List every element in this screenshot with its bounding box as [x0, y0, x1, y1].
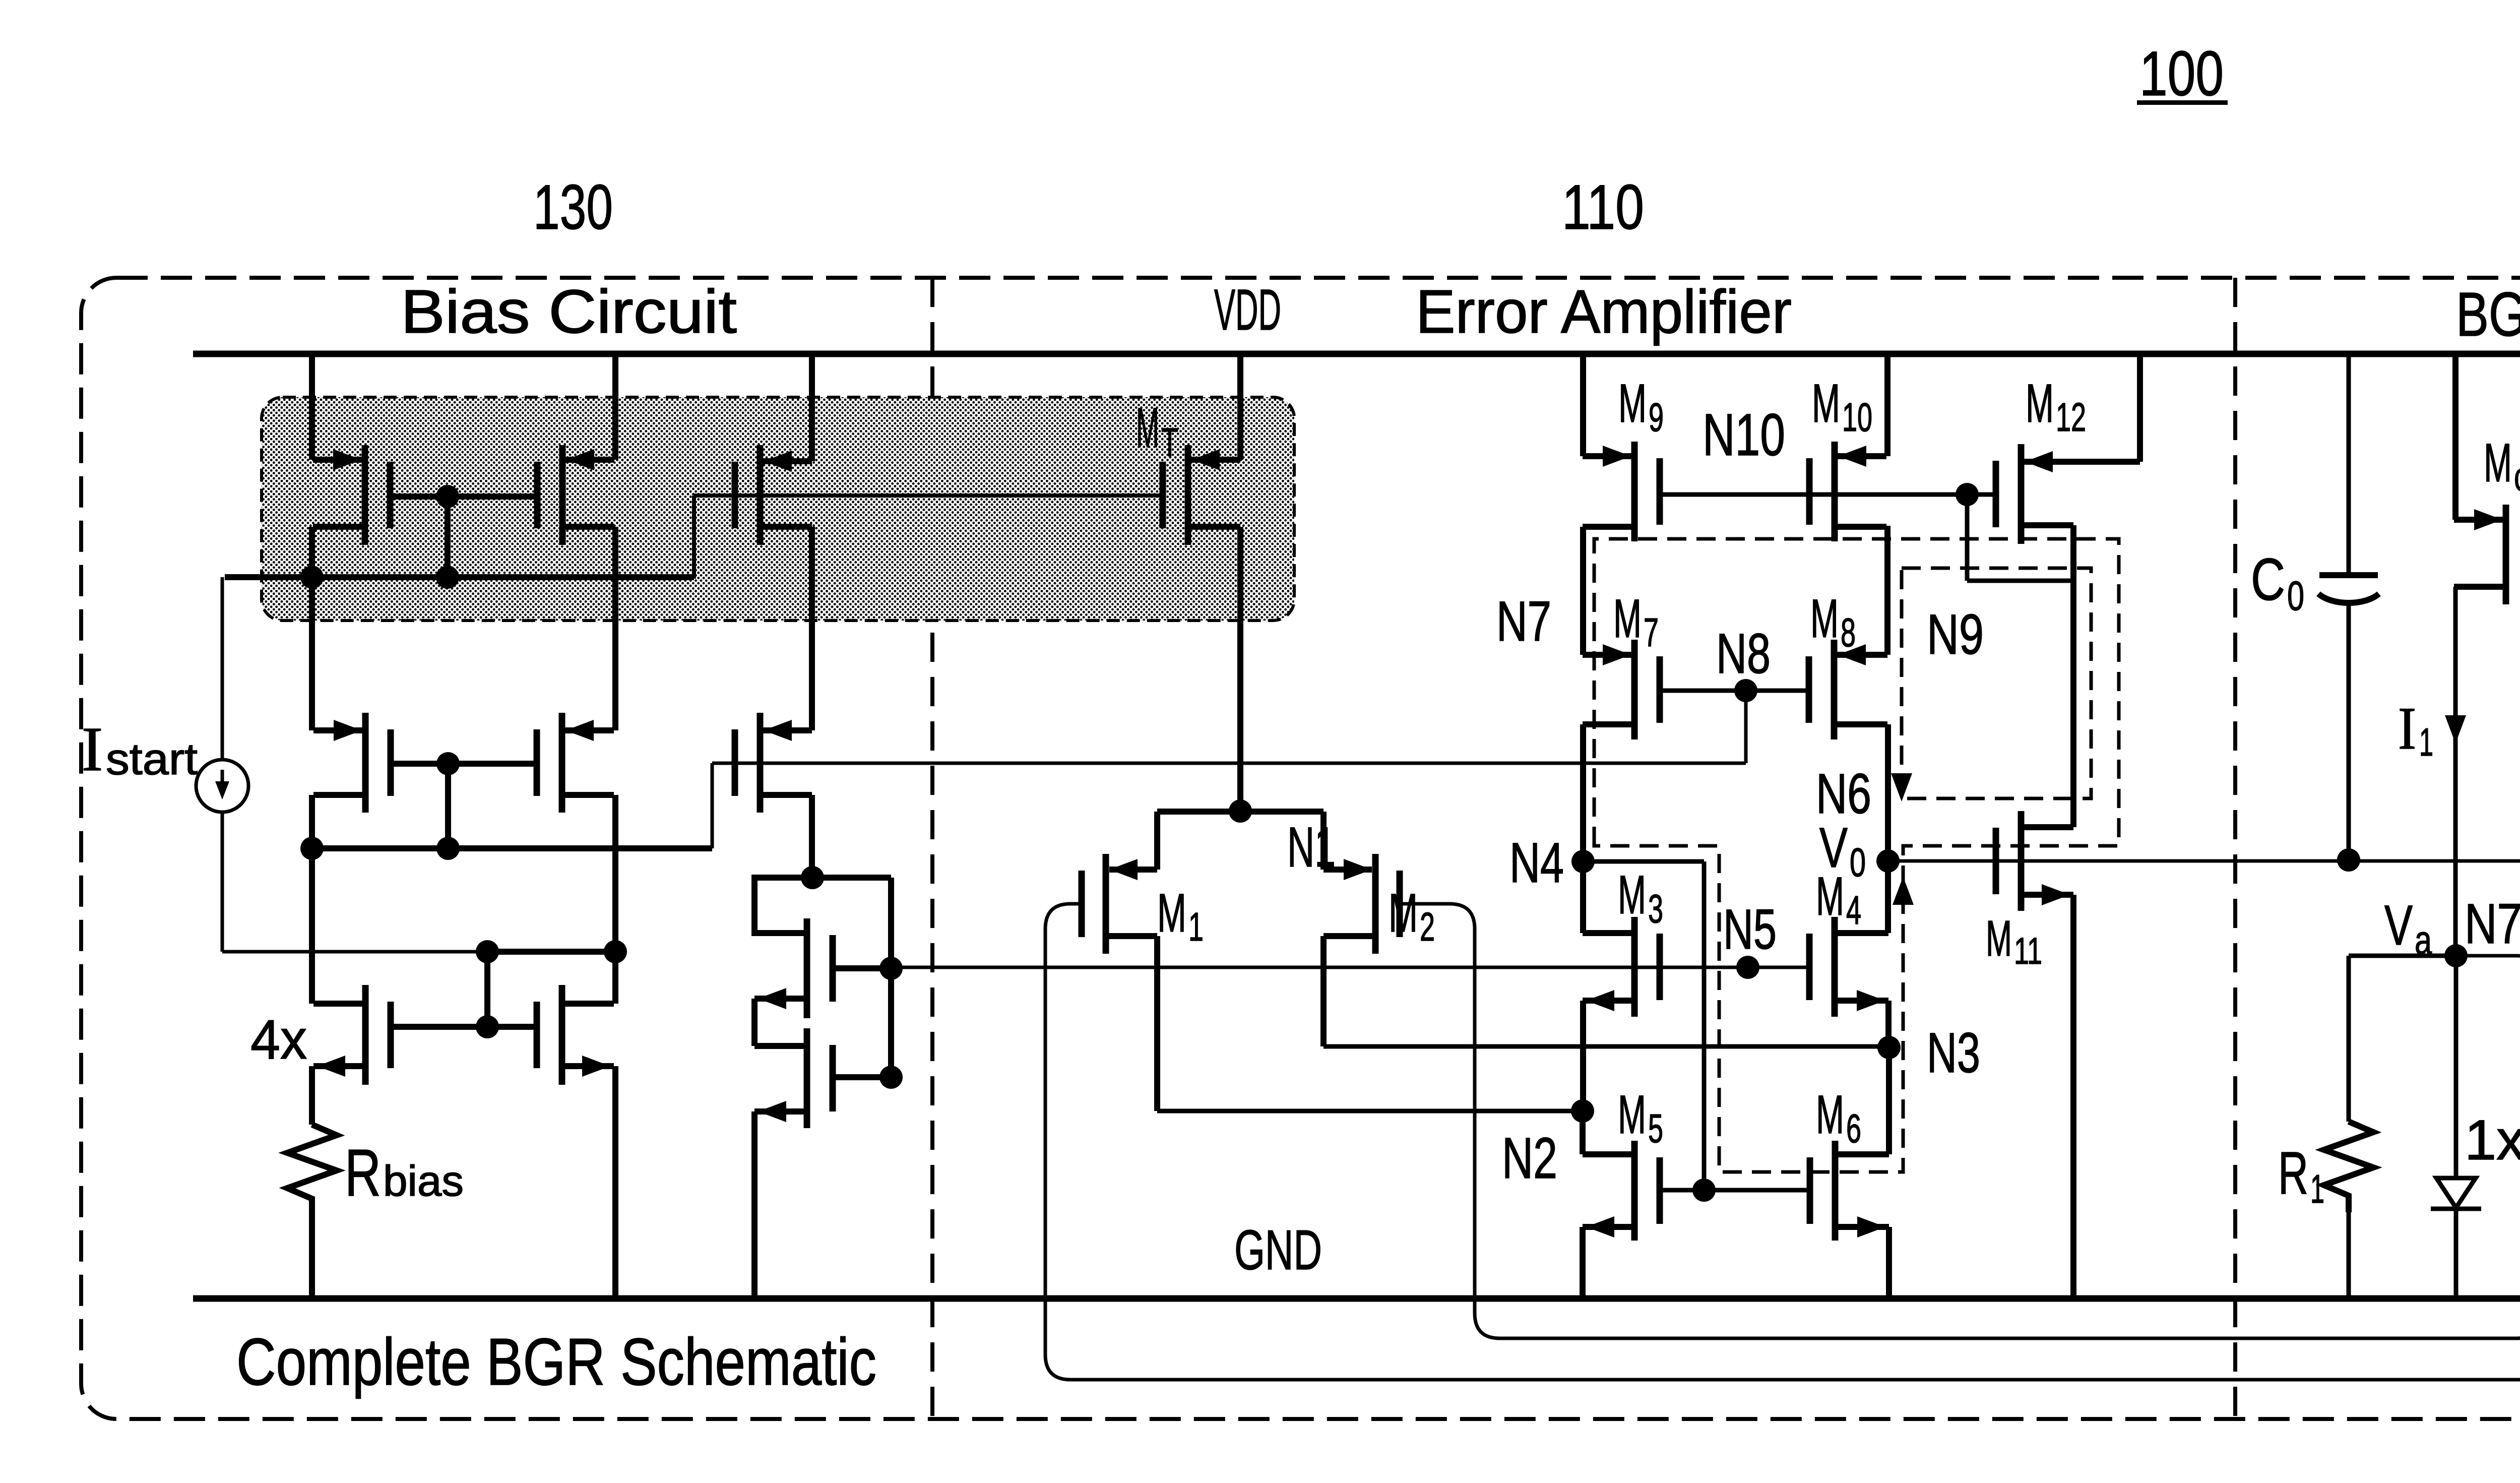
svg-text:V: V: [1819, 816, 1848, 879]
wire row3 right source to GND: [612, 1066, 618, 1299]
M8 gate lead: [1746, 689, 1810, 693]
transistor T1 (startup PMOS 1) source lead: [313, 524, 365, 530]
wire MT source down to N1: [1237, 527, 1243, 811]
transistor T3 (startup PMOS 3) channel: [757, 445, 764, 545]
wire N3 to M6 drain: [1886, 1047, 1892, 1154]
node dot Va: [2444, 944, 2468, 967]
svg-text:T: T: [1161, 420, 1178, 465]
transistor bias mirror PMOS row2 right arrow: [565, 720, 594, 741]
svg-text:c1: c1: [2514, 454, 2520, 499]
stack2 source lead: [754, 1108, 807, 1115]
transistor Mc1 arrow: [2474, 509, 2502, 530]
node dot N1: [1229, 799, 1252, 823]
svg-text:C: C: [2251, 546, 2285, 613]
transistor bias NMOS 4x left channel: [362, 985, 369, 1085]
stack2 source wire to GND: [751, 1111, 758, 1299]
transistor M6 gate bar: [1807, 1157, 1813, 1224]
transistor T3 (startup PMOS 3) arrow: [764, 451, 792, 472]
svg-text:M: M: [1618, 373, 1647, 434]
node dot N8 error-amp: [1734, 679, 1757, 702]
row2 gate lead left: [390, 761, 448, 767]
transistor T1 (startup PMOS 1) arrow: [333, 449, 361, 470]
transistor bias mirror PMOS row2 right channel: [559, 713, 565, 813]
transistor M9 channel: [1631, 442, 1638, 541]
dashed box N9: [1902, 568, 2091, 798]
wire third leg to diode stack: [809, 795, 815, 878]
transistor bias NMOS row3 right source arrow: [582, 1056, 610, 1077]
wire VDD to M10 drain: [1884, 354, 1891, 456]
stack2 drain lead: [754, 1043, 807, 1049]
transistor M9 gate bar: [1657, 458, 1663, 525]
wire Mc1 source to Va: [2453, 587, 2458, 956]
node dot Istart row left: [476, 940, 499, 963]
node dot V0: [1876, 849, 1900, 873]
stack1 source arrow: [758, 988, 786, 1009]
outer dashed boundary box: [81, 278, 2520, 1419]
svg-text:I: I: [82, 715, 103, 784]
svg-text:5: 5: [1648, 1106, 1663, 1151]
node dot N3: [1877, 1036, 1901, 1059]
transistor M7 arrow: [1603, 644, 1631, 665]
M12 drain lead: [2021, 459, 2140, 465]
transistor M9 arrow: [1603, 446, 1631, 467]
capacitor C0 bottom plate: [2318, 594, 2379, 603]
transistor M8 source lead: [1834, 721, 1887, 727]
wire M5 source to GND: [1580, 1227, 1586, 1299]
wire VDD to M12 drain: [2137, 354, 2143, 462]
R1 bottom wire: [2347, 1212, 2351, 1299]
transistor bias NMOS row3 right drain lead: [562, 1001, 614, 1007]
transistor bias mirror PMOS row2 right gate bar: [534, 729, 540, 796]
svg-text:N8: N8: [1716, 622, 1771, 685]
wire VDD to C0: [2347, 354, 2351, 575]
node dot M5/M6 gates: [1692, 1179, 1716, 1202]
svg-text:M: M: [1810, 588, 1839, 649]
svg-text:6: 6: [1846, 1106, 1861, 1151]
diode NMOS stack 1 gate bar: [830, 935, 836, 1002]
node dot N10/M12: [1956, 483, 1979, 506]
R1 top wire: [2347, 956, 2351, 1122]
transistor M9 drain lead: [1583, 453, 1634, 459]
svg-text:N9: N9: [1927, 603, 1984, 666]
bias mirror gate row: [225, 574, 694, 580]
wire bias row2 right to row3: [612, 795, 618, 1004]
transistor T2 (startup PMOS 2) channel: [559, 445, 566, 545]
svg-text:9: 9: [1649, 395, 1664, 440]
transistor M4 source lead: [1835, 998, 1888, 1004]
svg-text:1: 1: [2310, 1166, 2324, 1211]
N4 to M5/M6 gate wire horizontal: [1583, 859, 1704, 864]
transistor Mc1 source lead: [2454, 584, 2506, 590]
svg-text:Error Amplifier: Error Amplifier: [1416, 277, 1792, 346]
diode D1 to GND: [2454, 1209, 2459, 1299]
wire C0 to V0 line: [2347, 601, 2351, 860]
transistor M8 channel: [1831, 640, 1838, 739]
transistor M11 channel: [2018, 811, 2025, 911]
diode D1 1x: [2436, 1178, 2476, 1208]
transistor M5 source arrow: [1586, 1216, 1614, 1238]
transistor T3 (startup PMOS 3) drain lead: [760, 458, 812, 464]
transistor M3 source arrow: [1586, 990, 1614, 1011]
transistor bias NMOS row3 right source lead: [562, 1063, 614, 1069]
Istart row thick segment: [487, 949, 615, 955]
wire M3 source to N2: [1580, 1001, 1586, 1111]
transistor MT (tail current PMOS) channel: [1185, 445, 1191, 545]
svg-text:N10: N10: [1703, 402, 1785, 468]
svg-text:BGR Core: BGR Core: [2456, 280, 2520, 349]
transistor bias mirror PMOS row2 left channel: [362, 713, 369, 813]
transistor bias mirror PMOS row2 third (diode) channel: [757, 713, 764, 813]
transistor M1 channel: [1103, 854, 1109, 954]
svg-text:bias: bias: [383, 1157, 464, 1205]
svg-text:N7: N7: [2465, 892, 2520, 955]
wire T2 source down: [612, 527, 618, 730]
node dot N5: [1736, 956, 1759, 979]
svg-text:M: M: [1986, 910, 2012, 967]
dashed separator error-amplifier/BGR-core: [2233, 278, 2237, 1419]
transistor bias mirror PMOS row2 right source lead: [562, 792, 614, 798]
transistor T1 (startup PMOS 1) drain lead: [313, 457, 365, 463]
svg-text:VDD: VDD: [1214, 278, 1281, 342]
svg-text:12: 12: [2056, 395, 2086, 440]
transistor M2 gate bar: [1397, 871, 1403, 937]
Istart arrow head: [215, 781, 229, 799]
Istart current source circle: [196, 760, 248, 812]
transistor M11 source lead: [2021, 892, 2073, 898]
node dot C0/V0: [2337, 848, 2360, 872]
GND rail: [193, 1295, 2520, 1302]
row2 gate lead right: [448, 761, 538, 767]
transistor T2 (startup PMOS 2) source lead: [562, 524, 614, 530]
wire T3 source down: [809, 527, 815, 730]
M1 drain wire down: [1154, 936, 1160, 1111]
transistor T1 (startup PMOS 1) gate bar: [387, 462, 394, 528]
shaded startup region: [262, 397, 1294, 621]
svg-text:M: M: [1613, 588, 1642, 649]
transistor M11 drain lead: [2021, 824, 2073, 830]
node dot mid gate row: [436, 566, 459, 589]
svg-text:M: M: [2484, 432, 2512, 493]
svg-text:N4: N4: [1509, 831, 1564, 894]
svg-text:N3: N3: [1927, 1021, 1980, 1084]
M12 arrow: [2025, 451, 2053, 472]
M7 gate lead: [1660, 689, 1746, 693]
resistor R1: [2324, 1122, 2373, 1212]
diode D1 bar: [2431, 1207, 2481, 1211]
transistor M5 channel: [1631, 1141, 1638, 1241]
transistor bias mirror PMOS row2 right drain lead: [562, 727, 614, 733]
stack gate bus vertical: [888, 878, 894, 1077]
transistor bias mirror PMOS row2 left drain lead: [313, 727, 365, 733]
diode NMOS stack 1 channel: [804, 918, 810, 1018]
svg-text:M: M: [1136, 396, 1159, 459]
wire N2 to M5 drain: [1580, 1111, 1586, 1154]
M12 source wire down: [2070, 525, 2076, 827]
gate wire to T3 and MT gates: [694, 493, 1163, 498]
Va to R1 wire: [2349, 954, 2456, 958]
svg-text:1x: 1x: [2465, 1108, 2520, 1171]
transistor M7 drain lead: [1583, 652, 1634, 658]
svg-text:start: start: [106, 734, 198, 784]
N10 gate line: [1660, 492, 1996, 497]
svg-text:0: 0: [1850, 840, 1866, 885]
transistor M8 drain lead: [1834, 652, 1887, 658]
svg-text:R: R: [345, 1136, 381, 1210]
wire 1683 bus up to N1-feedback line: [711, 763, 714, 848]
wire N8 down to bias line: [1744, 691, 1748, 763]
N3 line from M2 drain: [1324, 1044, 1889, 1049]
svg-text:0: 0: [2287, 573, 2304, 619]
row3 gate lead: [390, 1024, 538, 1030]
node dot left leg gate row: [300, 566, 324, 589]
M11 source wire to GND: [2070, 895, 2076, 1299]
transistor M10 channel: [1832, 442, 1838, 541]
transistor M8 gate bar: [1806, 656, 1812, 723]
transistor M1 gate bar: [1079, 871, 1085, 937]
wire T1 source down to bias row2: [309, 527, 315, 730]
transistor M10 drain lead: [1835, 453, 1886, 459]
dashed arrow up on feedback path: [1893, 877, 1914, 905]
node dot T1/T2 gates: [436, 485, 459, 508]
transistor bias mirror PMOS row2 left source lead: [313, 792, 365, 798]
transistor bias mirror PMOS row2 left gate bar: [388, 729, 394, 796]
svg-text:M: M: [1618, 1084, 1646, 1145]
svg-text:M: M: [1618, 864, 1646, 925]
transistor M4 source arrow: [1857, 990, 1885, 1011]
transistor M12 gate bar: [1993, 461, 1999, 527]
transistor bias mirror PMOS row2 third (diode) drain lead: [760, 727, 812, 733]
wire VDD to MT drain: [1237, 354, 1243, 460]
svg-text:1: 1: [2419, 720, 2433, 764]
resistor Rbias: [287, 1125, 337, 1210]
Istart wire top: [221, 577, 224, 760]
M2 drain wire down: [1320, 936, 1327, 1046]
long bias line to N5: [891, 966, 1810, 969]
svg-text:V: V: [2384, 894, 2413, 957]
transistor bias NMOS 4x left drain lead: [313, 1001, 365, 1007]
transistor M10 gate bar: [1806, 458, 1813, 525]
wire Rbias to GND: [309, 1210, 315, 1299]
wire M9 source to M7 drain: [1580, 527, 1586, 655]
transistor M6 channel: [1832, 1141, 1839, 1241]
node dot N4: [1571, 850, 1595, 873]
svg-text:M: M: [1816, 1084, 1844, 1145]
svg-text:R: R: [2278, 1139, 2308, 1207]
svg-text:N5: N5: [1723, 898, 1777, 961]
node dot row1683 mid: [436, 837, 460, 860]
svg-text:N2: N2: [1502, 1126, 1557, 1191]
transistor M3 channel: [1631, 917, 1638, 1017]
stack tie bar right: [812, 875, 891, 881]
dashed arrow down on N9 box: [1891, 773, 1912, 801]
diode NMOS stack 2 gate bar: [830, 1045, 836, 1111]
M1 source lead: [1109, 867, 1157, 873]
node dot stack1 gate: [879, 957, 903, 980]
wire M6 source to GND: [1886, 1227, 1892, 1299]
transistor bias NMOS row3 right channel: [559, 985, 565, 1085]
M1 drain lead: [1106, 933, 1157, 939]
transistor M7 gate bar: [1657, 656, 1663, 723]
transistor M7 channel: [1631, 640, 1638, 739]
tail split bar: [1157, 809, 1324, 815]
N4 to M5/M6 gate wire vertical: [1702, 861, 1707, 1190]
diode NMOS stack 2 channel: [804, 1028, 810, 1128]
svg-text:Complete BGR Schematic: Complete BGR Schematic: [236, 1325, 876, 1399]
svg-text:4: 4: [1846, 888, 1861, 933]
transistor M9 source lead: [1583, 524, 1634, 530]
transistor T3 (startup PMOS 3) source lead: [760, 524, 812, 530]
N10 to M12 source horizontal: [1967, 579, 2073, 583]
transistor M3 source lead: [1583, 998, 1634, 1004]
node dot row3 gates: [476, 1015, 499, 1038]
node dot stack top: [801, 866, 824, 889]
stack1 gate lead: [833, 965, 891, 971]
transistor M6 source arrow: [1857, 1216, 1885, 1238]
transistor M4 gate bar: [1806, 934, 1813, 1000]
svg-text:7: 7: [1644, 610, 1659, 655]
dashed separator bias/error-amplifier: [930, 278, 934, 1419]
wire row3 gate node up: [484, 952, 490, 1027]
V0 output line: [1888, 859, 2520, 863]
M2 gate feedback loop to Va: [1400, 904, 2520, 1338]
transistor M11 gate bar: [1993, 828, 1999, 894]
wire M10 source to M8 drain: [1884, 526, 1891, 655]
svg-text:110: 110: [1562, 172, 1644, 242]
stack2 gate lead: [833, 1074, 891, 1080]
wire row3 left source to Rbias: [309, 1066, 315, 1125]
wire gate row jog up: [692, 496, 696, 579]
svg-text:100: 100: [2139, 39, 2224, 109]
transistor MT (tail current PMOS) gate bar: [1160, 462, 1166, 528]
wire VDD to M9 drain: [1580, 354, 1586, 456]
transistor MT (tail current PMOS) source lead: [1188, 524, 1240, 530]
T2 gate lead: [448, 493, 538, 500]
svg-text:I: I: [2398, 695, 2416, 762]
transistor M5 gate bar: [1657, 1157, 1663, 1224]
svg-text:10: 10: [1842, 395, 1872, 440]
svg-text:M: M: [1157, 882, 1186, 943]
tail right vertical: [1320, 812, 1327, 870]
transistor M7 source lead: [1583, 721, 1634, 727]
VDD rail: [193, 351, 2520, 357]
M2 source arrow: [1344, 859, 1372, 880]
stack drain detour: [754, 878, 812, 933]
N10 to M12 source vertical: [1965, 495, 1970, 581]
M6 gate lead: [1704, 1188, 1811, 1193]
transistor T2 (startup PMOS 2) drain lead: [562, 457, 614, 463]
transistor M6 source lead: [1835, 1224, 1889, 1230]
transistor M10 source lead: [1835, 524, 1886, 530]
transistor Mc1 drain lead: [2454, 517, 2506, 523]
T1 gate lead: [389, 493, 448, 500]
svg-text:N7: N7: [1496, 590, 1551, 653]
M12 source lead: [2021, 522, 2073, 528]
wire VDD to Mc1 drain: [2452, 354, 2459, 520]
transistor M6 drain lead: [1835, 1151, 1889, 1157]
wire VDD to T1 drain: [309, 354, 315, 460]
transistor Mc1 channel: [2503, 505, 2509, 604]
transistor M10 arrow: [1838, 446, 1866, 467]
long line bias to N8: [712, 762, 1746, 765]
node dot row1683 left: [300, 837, 324, 860]
node dot N2: [1571, 1099, 1594, 1123]
transistor bias mirror PMOS row2 third (diode) source lead: [760, 792, 812, 798]
transistor M12 channel: [2018, 444, 2025, 544]
svg-text:130: 130: [533, 172, 613, 242]
transistor M3 drain lead: [1583, 930, 1634, 936]
transistor T1 (startup PMOS 1) channel: [362, 445, 368, 545]
wire N4 to M3 drain: [1580, 861, 1586, 933]
bias row1683 gate bus: [312, 845, 712, 851]
svg-text:M: M: [2026, 373, 2054, 434]
Istart wire bottom: [221, 812, 224, 952]
wire VDD to T2 drain: [612, 354, 618, 460]
M1 source arrow: [1109, 859, 1138, 880]
transistor M4 channel: [1832, 917, 1838, 1017]
transistor bias mirror PMOS row2 left arrow: [334, 720, 362, 741]
transistor M11 source arrow: [2042, 884, 2070, 905]
transistor bias mirror PMOS row2 third (diode) arrow: [764, 720, 792, 741]
svg-text:Bias Circuit: Bias Circuit: [401, 277, 737, 346]
dashed box N7 cascode region: [1594, 539, 2119, 1172]
transistor M4 drain lead: [1835, 930, 1888, 936]
transistor M8 arrow: [1838, 644, 1866, 665]
node dot row2 gates: [436, 752, 460, 775]
wire M4 source to N3: [1885, 1001, 1892, 1046]
transistor MT (tail current PMOS) arrow: [1191, 449, 1220, 470]
transistor T2 (startup PMOS 2) gate bar: [534, 462, 541, 528]
current arrow I1: [2445, 715, 2466, 744]
transistor bias NMOS row3 right gate bar: [534, 1002, 540, 1068]
svg-text:1: 1: [1188, 904, 1204, 949]
wire M8 source to V0 and M4 drain: [1885, 724, 1891, 933]
wire bias row2 left to row3: [309, 795, 315, 1004]
M2 drain lead: [1324, 933, 1375, 939]
transistor M5 source lead: [1583, 1224, 1634, 1230]
stack1 source lead: [754, 996, 807, 1002]
N2 line from M1 drain: [1157, 1109, 1583, 1114]
tail left vertical: [1154, 812, 1160, 870]
transistor M5 drain lead: [1583, 1151, 1634, 1157]
svg-text:4x: 4x: [250, 1009, 307, 1071]
svg-text:M: M: [1812, 373, 1840, 434]
capacitor C0 top plate: [2319, 572, 2378, 578]
svg-text:11: 11: [2014, 930, 2042, 972]
transistor T3 (startup PMOS 3) gate bar: [732, 462, 738, 528]
svg-text:2: 2: [1420, 904, 1435, 949]
wire gate node down: [445, 497, 451, 577]
M5 gate lead: [1660, 1188, 1704, 1193]
transistor bias NMOS 4x left gate bar: [388, 1002, 394, 1068]
svg-text:GND: GND: [1234, 1219, 1322, 1281]
svg-text:3: 3: [1648, 886, 1663, 931]
transistor M2 channel: [1372, 854, 1379, 954]
transistor M3 gate bar: [1657, 934, 1663, 1000]
M2 source lead: [1324, 867, 1372, 873]
transistor bias NMOS 4x left source arrow: [317, 1056, 345, 1077]
Istart feed row: [222, 950, 487, 954]
transistor bias mirror PMOS row2 third (diode) gate bar: [732, 729, 738, 796]
wire VDD to T3 drain: [809, 354, 815, 461]
wire M7 source to N4: [1580, 724, 1586, 861]
Va to diode wire: [2454, 956, 2459, 1178]
transistor MT (tail current PMOS) drain lead: [1188, 457, 1240, 463]
node dot stack2 gate: [879, 1066, 903, 1089]
transistor bias NMOS 4x left source lead: [313, 1063, 365, 1069]
stack2 source arrow: [758, 1101, 786, 1122]
svg-text:M: M: [1389, 882, 1418, 943]
node dot Istart row right: [604, 940, 627, 963]
